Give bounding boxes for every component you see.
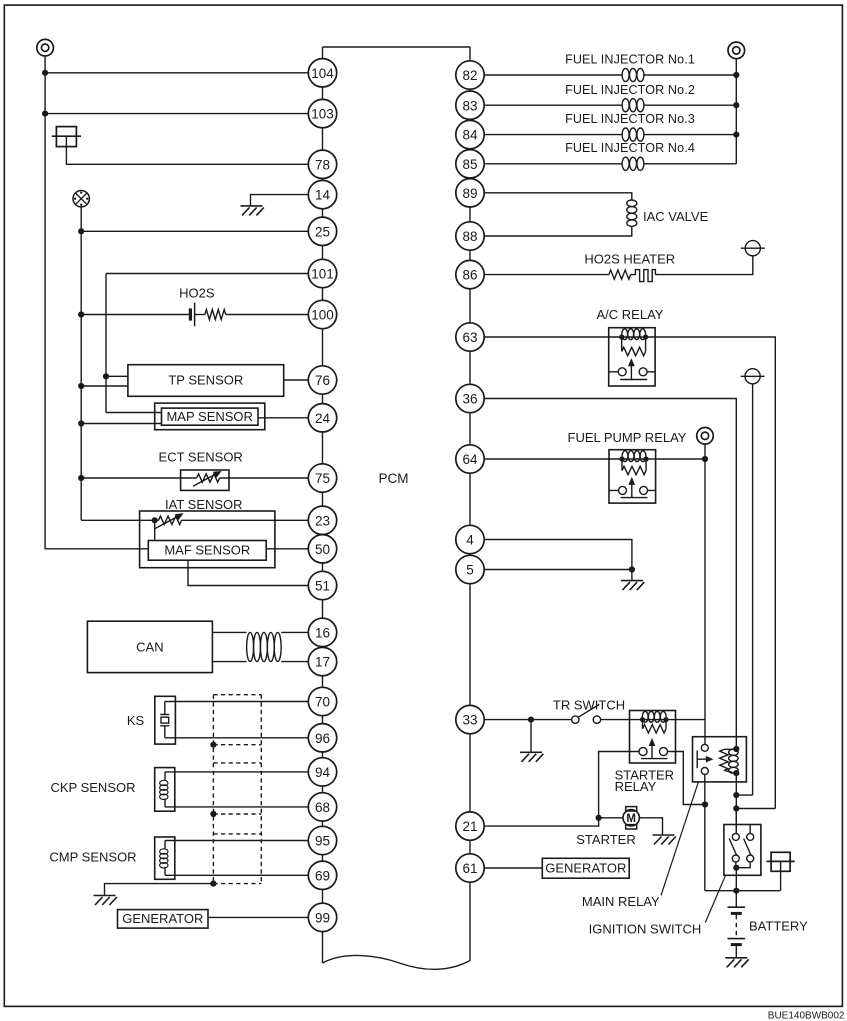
wire: TP to pin 76 [284, 379, 309, 381]
wire: heater to fuse [655, 256, 752, 275]
STARTER RELAY resistor left leg [642, 720, 644, 729]
junction ignition output [733, 865, 739, 871]
connector (fuel pump) [697, 428, 714, 445]
wire: injector 2 to feed rail [644, 104, 736, 106]
wire: KS to pin 96 [165, 737, 309, 739]
PCM pin 86 [456, 260, 484, 288]
svg-text:MAP SENSOR: MAP SENSOR [166, 409, 252, 424]
STARTER RELAY resistor right leg [665, 720, 667, 729]
junction injector 2 [733, 102, 739, 108]
svg-text:HO2S: HO2S [179, 286, 215, 301]
wire: pin 85 to injector 4 [484, 163, 622, 165]
junction at wire 103 [42, 111, 48, 117]
svg-text:ECT SENSOR: ECT SENSOR [159, 450, 243, 465]
A/C RELAY contact stubs [609, 371, 655, 373]
wire: A/C feed link [736, 808, 775, 810]
wire: node to starter motor [599, 817, 624, 819]
ECT thermistor resistor [197, 474, 220, 482]
wire: A/C relay to right rail [655, 337, 775, 809]
wire: injector 3 to feed rail [644, 134, 736, 136]
wire: ignition bottom jumper [736, 862, 750, 868]
wire: main relay contact leg [704, 775, 706, 891]
PCM pin 61 [456, 854, 484, 882]
wire: CAN high to pin 16 [281, 631, 308, 633]
CMP sensor box [155, 837, 175, 879]
svg-text:104: 104 [311, 66, 334, 81]
svg-text:IGNITION SWITCH: IGNITION SWITCH [589, 921, 702, 936]
STARTER RELAY contact bar [641, 758, 668, 760]
junction ECT wire [78, 475, 84, 481]
svg-text:95: 95 [315, 834, 330, 849]
wire: pin 64 to fuel pump relay [484, 458, 609, 460]
ground (battery) [725, 958, 748, 968]
svg-text:M: M [626, 813, 636, 825]
PCM pin 84 [456, 120, 484, 148]
svg-text:BUE140BWB002: BUE140BWB002 [768, 1010, 845, 1021]
svg-text:GENERATOR: GENERATOR [545, 861, 626, 876]
svg-text:99: 99 [315, 911, 330, 926]
STARTER RELAY resistor [643, 725, 667, 733]
A/C RELAY box [609, 328, 655, 386]
PCM bottom wavy edge [323, 955, 471, 969]
wire: CMP to pin 69 [165, 874, 309, 876]
wire: injector 1 to feed rail [644, 74, 736, 76]
PCM pin 69 [308, 861, 336, 889]
wire: starter relay contact to starter [599, 752, 630, 818]
svg-text:21: 21 [462, 819, 477, 834]
svg-text:MAF SENSOR: MAF SENSOR [164, 543, 250, 558]
FUEL PUMP RELAY resistor right leg [645, 459, 647, 471]
wire: HO2S to pin 100 [226, 314, 309, 316]
svg-text:24: 24 [315, 411, 331, 426]
FUEL PUMP RELAY coil [622, 451, 646, 462]
PCM pin 24 [308, 404, 336, 432]
wire: MAP lower input [81, 423, 161, 425]
TR switch contacts [572, 704, 601, 723]
CAN box [87, 621, 212, 672]
wire: CKP to pin 94 [165, 771, 309, 773]
svg-text:IAC VALVE: IAC VALVE [643, 209, 709, 224]
FUEL PUMP RELAY contact circles [619, 486, 648, 494]
wire: CAN high left [212, 631, 246, 633]
svg-text:61: 61 [462, 861, 477, 876]
junction fuel pump node [702, 456, 708, 462]
wire: KS to pin 70 [165, 701, 309, 703]
svg-text:69: 69 [315, 868, 330, 883]
svg-text:82: 82 [462, 68, 477, 83]
PCM pin 76 [308, 366, 336, 394]
MAP SENSOR inner box [162, 408, 259, 425]
PCM pin 75 [308, 464, 336, 492]
wire: ignition bottom link [735, 862, 737, 868]
wire: IAT junction to MAF [154, 520, 156, 540]
wire: TR switch to starter relay [601, 719, 630, 721]
PCM pin 33 [456, 705, 484, 733]
wire: pin 84 to injector 3 [484, 134, 622, 136]
svg-text:BATTERY: BATTERY [749, 919, 808, 934]
ground (TR switch) [520, 752, 543, 762]
main relay contacts [701, 744, 708, 774]
wire: ECT left segment [81, 477, 196, 479]
wire: pins 4/5 ground leg [631, 570, 633, 581]
svg-text:103: 103 [311, 107, 334, 122]
junction starter node [596, 815, 602, 821]
HO2S heater resistor [609, 270, 631, 279]
svg-text:101: 101 [311, 267, 334, 282]
wire: IAT to pin 23 [182, 519, 309, 521]
shield junction CKP [210, 811, 216, 817]
ECT thermistor arrow [193, 473, 217, 486]
PCM pin 95 [308, 826, 336, 854]
wire: pin 101 run [106, 273, 309, 275]
wire: TP upper input [106, 375, 128, 377]
junction IAT thermistor [152, 517, 158, 523]
PCM pin 101 [308, 259, 336, 287]
FUEL PUMP RELAY box [609, 450, 656, 503]
wire: battery to ground [735, 945, 737, 958]
junction HO2S wire [78, 311, 84, 317]
svg-text:FUEL INJECTOR No.3: FUEL INJECTOR No.3 [565, 112, 695, 126]
fuel injector No.1 coil [622, 68, 644, 81]
wire: starter motor ground leg [639, 818, 662, 835]
FUEL PUMP RELAY armature arrow [631, 483, 633, 498]
CKP shield bottom [213, 813, 261, 815]
svg-text:14: 14 [315, 188, 331, 203]
wire: pin 89 to IAC [484, 193, 632, 201]
svg-text:51: 51 [315, 579, 330, 594]
PCM pin 50 [308, 535, 336, 563]
A/C RELAY resistor [622, 347, 646, 355]
shield junction KS [210, 742, 216, 748]
svg-text:75: 75 [315, 471, 330, 486]
FUEL PUMP RELAY coil right end [644, 456, 649, 461]
PCM pin 78 [308, 150, 336, 178]
main relay coil bottom node [733, 770, 739, 776]
PCM pin 23 [308, 506, 336, 534]
svg-text:5: 5 [466, 563, 474, 578]
wire: starter relay coil to rail [676, 719, 706, 721]
wire: ignition switch right pole stub [749, 825, 751, 834]
HO2S sensor cell (battery symbol) [189, 308, 192, 320]
svg-text:84: 84 [462, 128, 478, 143]
svg-text:HO2S HEATER: HO2S HEATER [584, 251, 675, 266]
wire: fuel pump relay to node [656, 458, 705, 460]
wire: HO2S mid segment [195, 314, 205, 316]
wire: IAC to pin 88 [484, 226, 632, 236]
svg-text:23: 23 [315, 513, 330, 528]
svg-text:STARTER: STARTER [576, 832, 635, 847]
wire: MAF ground leg to pin 51 [188, 560, 309, 585]
wire: node 101 down-rail [105, 274, 107, 413]
PCM pin 68 [308, 793, 336, 821]
FUEL PUMP RELAY resistor [622, 466, 646, 474]
ignition switch poles [729, 833, 754, 862]
svg-text:PCM: PCM [379, 471, 409, 486]
wire: pin 36 run [484, 399, 736, 750]
wire: starter relay contact to main relay [676, 752, 706, 805]
svg-text:96: 96 [315, 731, 330, 746]
main relay coil top node [733, 746, 739, 752]
ECT SENSOR box [181, 470, 229, 490]
fusible link (top left) [52, 127, 81, 147]
svg-text:RELAY: RELAY [615, 779, 657, 794]
svg-text:MAIN RELAY: MAIN RELAY [582, 894, 660, 909]
junction MAP lower [78, 420, 84, 426]
wire: fusible link drop [780, 861, 782, 890]
svg-text:IAT SENSOR: IAT SENSOR [165, 497, 243, 512]
STARTER RELAY coil feed line [630, 719, 676, 721]
svg-text:16: 16 [315, 626, 330, 641]
connector (top right) [728, 42, 745, 59]
wire: pin 14 to ground [251, 195, 309, 206]
wire: TR ground leg [530, 720, 532, 753]
svg-text:70: 70 [315, 695, 330, 710]
wire: pin 21 run [484, 818, 599, 826]
MAP SENSOR outer box [155, 403, 265, 430]
svg-text:FUEL PUMP RELAY: FUEL PUMP RELAY [568, 430, 687, 445]
fuel injector No.4 coil [622, 157, 644, 170]
PCM pin 5 [456, 555, 484, 583]
svg-text:78: 78 [315, 157, 330, 172]
A/C RELAY coil left end [619, 334, 624, 339]
main relay armature arrow [697, 751, 706, 769]
connector (top left) [37, 39, 54, 56]
STARTER RELAY contact circles [639, 748, 668, 756]
wire: HO2S left segment [81, 314, 190, 316]
wire: pin 33 run [484, 719, 572, 721]
wire to pin 103 [45, 113, 308, 115]
A/C RELAY resistor left leg [621, 337, 623, 352]
svg-text:64: 64 [462, 452, 478, 467]
wire: battery rail [735, 773, 737, 833]
junction pins 4/5 [629, 566, 635, 572]
junction starter feed [702, 801, 708, 807]
svg-text:4: 4 [466, 533, 474, 548]
starter motor M [623, 807, 639, 829]
FUEL PUMP RELAY contact bar [621, 497, 648, 499]
wire: pin 5 run [484, 569, 632, 571]
svg-text:CAN: CAN [136, 639, 163, 654]
wire: pin 4 run [484, 540, 632, 570]
ground (sensor shield) [94, 896, 117, 906]
CKP sensor box [155, 768, 175, 812]
wire: MAP upper input [106, 412, 162, 414]
PCM pin 64 [456, 445, 484, 473]
STARTER RELAY coil [642, 711, 666, 722]
KS piezo element [160, 702, 169, 738]
KS shield top [213, 694, 261, 696]
junction bottom bus / battery [733, 888, 739, 894]
A/C RELAY contact bar [620, 379, 647, 381]
HO2S heater element [631, 270, 656, 282]
svg-text:25: 25 [315, 224, 330, 239]
GENERATOR box (left) [118, 910, 209, 929]
svg-text:68: 68 [315, 800, 330, 815]
PCM left rail [322, 47, 324, 963]
CAN twisted pair coil [247, 632, 281, 661]
wire: shield drain to ground [105, 884, 214, 896]
A/C RELAY coil [622, 329, 646, 340]
junction battery rail / fuse feed [733, 792, 739, 798]
main relay box [693, 737, 747, 782]
main relay coil connections [724, 749, 736, 772]
svg-text:94: 94 [315, 765, 331, 780]
fuel injector No.2 coil [622, 99, 644, 112]
CMP pickup coil [160, 841, 168, 876]
fuse (ignition feed) [741, 369, 765, 384]
battery symbol [728, 906, 746, 908]
wire: TP lower input [81, 385, 128, 387]
STARTER RELAY contact stubs [630, 751, 676, 753]
wire: pin 86 to heater [484, 274, 609, 276]
wire: pin 82 to injector 1 [484, 74, 622, 76]
warning lamp symbol [73, 191, 89, 207]
wire: pin 63 to A/C relay [484, 336, 609, 338]
wire: pin 83 to injector 2 [484, 104, 622, 106]
HO2S resistor [205, 310, 226, 320]
KS sensor box [155, 696, 176, 744]
PCM top edge [323, 46, 471, 48]
PCM pin 36 [456, 384, 484, 412]
shield dashed left rail [212, 695, 214, 884]
PCM pin 17 [308, 647, 336, 675]
CMP shield bottom [213, 883, 261, 885]
PCM pin 16 [308, 618, 336, 646]
svg-text:86: 86 [462, 268, 477, 283]
svg-text:TP SENSOR: TP SENSOR [168, 373, 243, 388]
wire: fuse to main relay node [752, 384, 754, 795]
PCM pin 25 [308, 217, 336, 245]
wire: ignition to battery [735, 868, 737, 908]
shield dashed right rail [260, 695, 262, 884]
ground (pin 14) [241, 206, 264, 216]
svg-text:CKP SENSOR: CKP SENSOR [50, 780, 135, 795]
PCM pin 99 [308, 903, 336, 931]
PCM pin 85 [456, 150, 484, 178]
ignition switch pointer line [705, 876, 725, 923]
A/C RELAY coil right end [643, 334, 648, 339]
wire: IAT left segment [81, 519, 158, 521]
wire: CAN low left [212, 661, 246, 663]
wire: injector 4 to feed rail [644, 163, 736, 165]
FUEL PUMP RELAY contact stubs [609, 489, 656, 491]
svg-text:FUEL INJECTOR No.2: FUEL INJECTOR No.2 [565, 83, 695, 97]
svg-text:63: 63 [462, 330, 477, 345]
ground (starter) [653, 835, 676, 845]
FUEL PUMP RELAY resistor left leg [621, 459, 623, 471]
fusible link (battery) [767, 852, 795, 871]
shield junction CMP [210, 881, 216, 887]
A/C RELAY resistor right leg [645, 337, 647, 352]
wire: fusible link to pin 78 [66, 136, 308, 164]
A/C RELAY armature arrow [630, 364, 632, 379]
wire: connector down-feed [45, 56, 148, 549]
wire: CKP to pin 68 [165, 806, 309, 808]
PCM pin 96 [308, 724, 336, 752]
svg-text:100: 100 [311, 308, 334, 323]
PCM pin 70 [308, 687, 336, 715]
PCM pin 4 [456, 525, 484, 553]
STARTER RELAY box [630, 711, 676, 764]
PCM pin 89 [456, 179, 484, 207]
PCM pin 82 [456, 61, 484, 89]
PCM pin 63 [456, 323, 484, 351]
svg-text:76: 76 [315, 373, 330, 388]
junction at wire 104 [42, 70, 48, 76]
svg-text:33: 33 [462, 713, 477, 728]
svg-text:GENERATOR: GENERATOR [122, 911, 203, 926]
KS shield bottom [213, 744, 261, 746]
wire: generator to pin 99 [208, 916, 309, 918]
MAF SENSOR box [148, 541, 266, 561]
CKP pickup coil [160, 772, 168, 807]
PCM pin 14 [308, 180, 336, 208]
svg-text:A/C RELAY: A/C RELAY [597, 307, 664, 322]
wire: fuel pump node rail [704, 444, 706, 744]
GENERATOR box (right) [542, 858, 629, 878]
PCM pin 88 [456, 222, 484, 250]
junction injector 1 [733, 72, 739, 78]
svg-text:36: 36 [462, 392, 477, 407]
PCM pin 94 [308, 758, 336, 786]
svg-text:FUEL INJECTOR No.4: FUEL INJECTOR No.4 [565, 141, 695, 155]
A/C RELAY contact circles [618, 368, 647, 376]
wire: lamp down-rail [80, 207, 82, 520]
svg-text:85: 85 [462, 157, 477, 172]
FUEL PUMP RELAY coil left end [619, 456, 624, 461]
wire: pin 61 to generator [484, 867, 542, 869]
svg-text:89: 89 [462, 186, 477, 201]
junction TP lower [78, 383, 84, 389]
fuse (HO2S heater feed) [741, 241, 765, 256]
main relay resistor [720, 750, 728, 771]
STARTER RELAY coil left end [640, 717, 645, 722]
IAT/MAF outer box [140, 511, 275, 568]
junction TP upper [103, 373, 109, 379]
main relay coil [729, 749, 739, 773]
TP SENSOR box [128, 365, 284, 397]
junction TR ground [528, 717, 534, 723]
wire: bottom bus [705, 890, 781, 892]
wire: ECT to pin 75 [220, 477, 309, 479]
junction wire 25 [78, 228, 84, 234]
IAC VALVE coil [627, 200, 637, 226]
PCM pin 100 [308, 300, 336, 328]
wire to pin 104 [45, 72, 308, 74]
PCM pin 83 [456, 91, 484, 119]
PCM pin 103 [308, 99, 336, 127]
svg-text:88: 88 [462, 229, 477, 244]
wire: CAN low to pin 17 [281, 661, 308, 663]
svg-text:FUEL INJECTOR No.1: FUEL INJECTOR No.1 [565, 53, 695, 67]
wire: fuse feed link [736, 794, 752, 796]
CMP shield top [213, 833, 261, 835]
STARTER RELAY armature arrow [651, 744, 653, 759]
ignition switch box [724, 825, 761, 876]
junction battery rail / A-C feed [733, 805, 739, 811]
FUEL PUMP RELAY coil feed line [609, 458, 656, 460]
wire: MAP to pin 24 [258, 417, 309, 419]
svg-text:83: 83 [462, 98, 477, 113]
STARTER RELAY coil right end [663, 717, 668, 722]
svg-text:CMP SENSOR: CMP SENSOR [49, 850, 136, 865]
PCM pin 51 [308, 571, 336, 599]
PCM pin 21 [456, 812, 484, 840]
main relay pointer line [661, 782, 698, 895]
junction injector 3 [733, 132, 739, 138]
PCM right rail [469, 47, 471, 961]
wire: ignition left pole feed [735, 809, 737, 834]
